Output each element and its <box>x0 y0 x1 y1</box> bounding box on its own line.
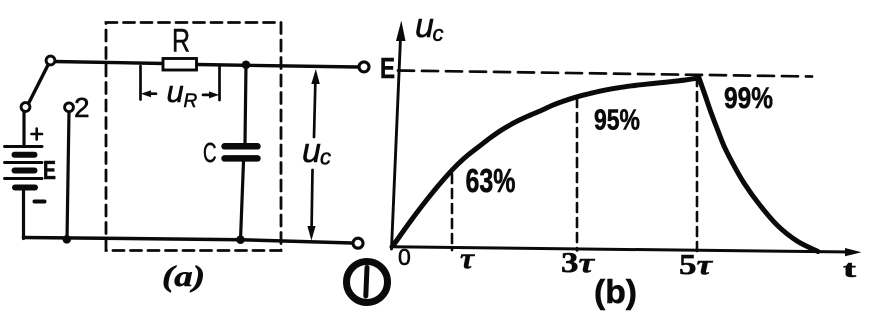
terminal bottom right <box>353 238 363 248</box>
svg-text:E: E <box>380 53 395 85</box>
dashed box (RC network boundary) <box>106 23 281 251</box>
battery minus sign <box>35 200 45 204</box>
charging curve <box>394 78 700 245</box>
svg-text:t: t <box>843 257 856 283</box>
svg-text:(b): (b) <box>594 273 637 310</box>
wire battery bottom lead <box>22 188 25 239</box>
switch pole contact <box>46 56 55 65</box>
svg-text:u: u <box>415 7 434 45</box>
battery plus sign <box>32 129 43 140</box>
u_R measurement ticks <box>139 66 142 100</box>
battery E plates <box>5 147 43 179</box>
u_R left arrow <box>146 92 156 95</box>
svg-text:u: u <box>167 74 184 109</box>
dashed line at tau <box>451 174 454 250</box>
capacitor top lead <box>245 65 246 144</box>
switch contact 1 <box>21 103 30 112</box>
junction node contact2-rail <box>63 235 72 244</box>
wire contact 2 to bottom rail <box>67 112 69 240</box>
junction node bottom (C-rail) <box>236 235 245 244</box>
discharging curve <box>699 78 818 252</box>
svg-text:(a): (a) <box>162 260 205 293</box>
svg-text:C: C <box>203 137 217 168</box>
dashed line at 3tau <box>576 98 579 251</box>
graph y-axis <box>392 38 401 249</box>
capacitor C plates <box>225 146 258 158</box>
svg-text:c: c <box>320 145 331 170</box>
dashed E level line <box>398 71 812 77</box>
svg-text:95%: 95% <box>594 105 640 137</box>
svg-text:u: u <box>302 132 321 170</box>
svg-text:2: 2 <box>74 92 90 123</box>
svg-text:R: R <box>172 23 190 59</box>
u_R right arrow <box>203 94 213 97</box>
terminal top right <box>359 62 369 72</box>
svg-text:3τ: 3τ <box>561 247 595 279</box>
wire top-left (switch pole to resistor) <box>54 62 163 64</box>
svg-text:5τ: 5τ <box>679 249 713 281</box>
wire resistor to top terminal <box>197 65 359 68</box>
dashed line at 5tau <box>696 77 699 252</box>
capacitor bottom lead <box>241 162 244 240</box>
switch contact 2 <box>65 103 74 112</box>
svg-text:99%: 99% <box>724 82 773 115</box>
svg-text:R: R <box>184 91 198 112</box>
svg-text:63%: 63% <box>466 162 516 199</box>
svg-text:τ: τ <box>460 242 476 275</box>
graph x-axis <box>391 247 852 252</box>
svg-text:0: 0 <box>398 244 411 270</box>
junction node top (R-C) <box>242 61 251 70</box>
svg-text:E: E <box>43 155 56 185</box>
wire battery top lead <box>22 111 25 146</box>
u_c measurement arrow <box>314 76 316 137</box>
resistor R <box>163 59 197 71</box>
switch blade <box>29 65 49 104</box>
figure label circled 1 <box>347 262 388 303</box>
wire bottom rail <box>24 238 353 244</box>
svg-text:c: c <box>433 21 444 46</box>
